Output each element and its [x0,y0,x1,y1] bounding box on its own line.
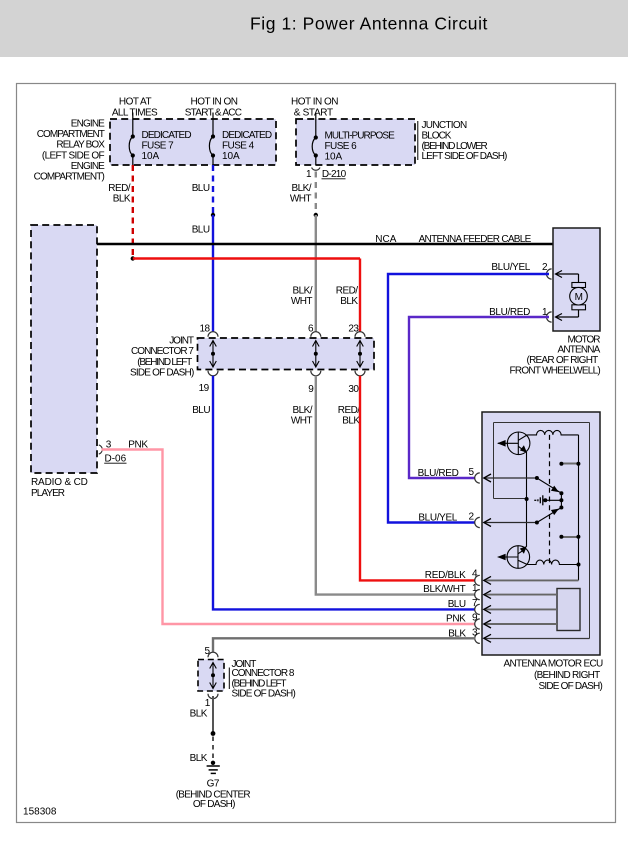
wire BLK dashed to ground [212,737,214,761]
wire BLU dashed from fuse 4 [212,165,214,215]
svg-text:COMPARTMENT: COMPARTMENT [37,129,105,140]
wire PNK from radio to ECU pin 9 [102,450,476,625]
label BLK/WHT above JC7 [291,286,313,308]
wire RED/BLK from JC7 pin 30 to ECU pin 4 [360,376,475,581]
ECU pin 9 lead [484,623,557,625]
JC7 pin 6 arc [311,332,321,337]
svg-text:BLK: BLK [190,708,208,719]
label: joint connector 8 [229,659,295,700]
label: joint connector 7 [130,336,194,379]
svg-text:BLU: BLU [192,225,210,236]
JC7 internal arrow column 1 [210,341,217,368]
svg-text:ALL TIMES: ALL TIMES [112,107,158,118]
ECU inner circuit boundary [494,423,590,639]
svg-text:ANTENNA FEEDER CABLE: ANTENNA FEEDER CABLE [419,234,532,245]
svg-text:FUSE 6: FUSE 6 [325,141,358,152]
svg-text:BLK/WHT: BLK/WHT [423,584,466,595]
svg-text:BLOCK: BLOCK [422,130,452,141]
svg-text:BLU: BLU [448,599,466,610]
JC7 pin numbers [199,323,360,395]
svg-text:& START: & START [294,107,333,118]
label: MULTI-PURPOSE FUSE 6 10A [325,130,396,162]
connector pin 1 of D-210 (arc) [312,168,320,171]
pin 2 arrow + lead [556,271,579,283]
ECU pin 1 lead [484,594,557,596]
relay contact lower [562,536,579,538]
wire BLK/WHT from JC7 pin 9 to ECU pin 1 [316,376,475,595]
svg-text:FUSE 7: FUSE 7 [142,140,175,151]
svg-text:Fig 1: Power Antenna Circuit: Fig 1: Power Antenna Circuit [250,14,488,34]
ECU pin arcs [475,473,480,644]
wire BLU/RED from motor pin 1 to ECU pin 5 [409,317,549,478]
svg-text:SIDE OF DASH): SIDE OF DASH) [232,689,296,700]
svg-text:10A: 10A [142,151,160,162]
svg-text:JUNCTION: JUNCTION [422,120,467,131]
svg-text:158308: 158308 [23,807,57,818]
node: base rail junction dot [525,497,529,501]
svg-text:CONNECTOR 7: CONNECTOR 7 [131,346,194,357]
svg-text:PNK: PNK [446,614,466,625]
svg-text:(LEFT SIDE OF: (LEFT SIDE OF [42,150,105,161]
label: G7 ground [176,779,251,811]
svg-text:BLK: BLK [190,753,208,764]
wire BLK/WHT solid down to joint connector 7 [315,215,317,332]
svg-text:BLK: BLK [342,415,360,426]
motor antenna box [553,228,600,331]
svg-text:(BEHIND LOWER: (BEHIND LOWER [422,141,488,152]
svg-text:MULTI-PURPOSE: MULTI-PURPOSE [325,130,396,141]
svg-text:BLK/: BLK/ [292,183,312,194]
svg-text:RED/BLK: RED/BLK [425,570,466,581]
svg-text:RED/: RED/ [336,286,358,297]
pin 1 arrow + lead [556,310,579,321]
svg-text:COMPARTMENT): COMPARTMENT) [34,172,105,183]
JC8 pin 1 arc [208,694,218,699]
svg-text:BLU: BLU [192,183,210,194]
ECU pin 5 lead + switch wiper up [484,477,537,479]
wire RED/BLK dashed from fuse 7 [132,165,134,258]
fuse F4 stub wire [212,113,214,120]
svg-text:LEFT SIDE OF DASH): LEFT SIDE OF DASH) [422,151,508,162]
svg-text:NCA: NCA [375,234,396,245]
ground G7 [211,761,215,765]
label: engine compartment relay box [34,119,106,183]
ECU pin 7 lead [484,608,557,610]
svg-text:BLU: BLU [192,405,210,416]
ECU pin arrowheads [484,474,491,642]
svg-text:BLK/: BLK/ [293,405,313,416]
JC7 pin 30 arc [355,371,365,376]
svg-text:ANTENNA MOTOR ECU: ANTENNA MOTOR ECU [503,659,602,670]
ECU pin 2 lead + switch wiper down [484,522,537,524]
switch common vertical [560,493,562,507]
svg-text:10A: 10A [325,151,343,162]
JC7 internal arrow column 2 [313,341,320,368]
label: HOT IN ON START & ACC [185,97,242,119]
wire right rail [578,435,580,581]
svg-text:19: 19 [199,383,210,394]
joint connector 8 box [198,660,224,692]
radio pin 3 connector arc [99,445,102,454]
junction dot on BLU [211,213,215,217]
ECU internal module rect [557,589,580,631]
svg-text:RED/: RED/ [108,183,130,194]
wire BLK from ECU pin 3 to joint connector 8 [213,638,475,652]
svg-text:FRONT WHEELWELL): FRONT WHEELWELL) [510,365,601,376]
svg-text:10A: 10A [222,151,240,162]
mechanical link (dashed) [549,435,551,564]
svg-text:DEDICATED: DEDICATED [142,130,192,141]
svg-text:DEDICATED: DEDICATED [222,130,272,141]
svg-text:30: 30 [348,384,359,395]
svg-text:BLU/YEL: BLU/YEL [418,512,457,523]
svg-text:RELAY BOX: RELAY BOX [56,140,105,151]
radio & CD player box [31,225,97,473]
fuse 7 symbol [129,119,133,165]
svg-text:BLU/RED: BLU/RED [418,468,459,479]
svg-text:23: 23 [348,323,359,334]
svg-text:HOT IN ON: HOT IN ON [191,97,238,108]
wire collector rail Q1-Q2 [526,452,528,547]
svg-text:JOINT: JOINT [169,336,194,347]
fuse 6 symbol [312,119,316,165]
junction dot on BLK/WHT [314,213,318,217]
wire BLU from JC7 pin 19 to ECU pin 7 [213,376,475,610]
svg-text:HOT IN ON: HOT IN ON [291,97,338,108]
svg-text:ENGINE: ENGINE [71,119,105,130]
JC7 pin 18 arc [208,332,218,337]
node: inductor L2 to rail [577,563,581,567]
svg-text:BLK/: BLK/ [293,286,313,297]
svg-text:SIDE OF DASH): SIDE OF DASH) [539,681,603,692]
motor antenna pin 1 arc [547,312,552,322]
label: radio & CD player [31,477,88,499]
wire BLK from JC8 to splice [212,696,214,734]
label: HOT IN ON & START [291,97,338,119]
fuse 4 symbol [209,119,213,165]
svg-text:WHT: WHT [290,193,312,204]
label RED/BLK [108,183,131,205]
svg-text:WHT: WHT [291,296,313,307]
svg-text:RED/: RED/ [338,405,360,416]
wire BLU/YEL from motor pin 2 to ECU pin 2 [388,274,549,523]
ECU pin 4 lead [484,579,578,581]
joint connector 7 box [198,338,375,370]
label RED/BLK above JC7 [336,286,359,308]
junction dot RED/BLK [131,256,135,260]
antenna feeder cable (black wire) [97,243,553,246]
svg-text:OF DASH): OF DASH) [193,799,235,810]
relay contact upper [562,463,579,465]
svg-text:M: M [575,292,583,303]
transistor Q1 [498,432,530,455]
svg-text:(BEHIND RIGHT: (BEHIND RIGHT [534,670,600,681]
label: motor antenna [510,334,601,376]
JC7 pin 23 arc [355,332,365,337]
svg-text:FUSE 4: FUSE 4 [222,140,255,151]
inductor L2 [527,560,578,564]
label: DEDICATED FUSE 4 10A [222,130,272,162]
JC8 pin 5 arc [208,652,218,657]
svg-text:PLAYER: PLAYER [31,488,65,499]
svg-text:BLU/YEL: BLU/YEL [491,262,530,273]
inductor L1 [527,430,578,435]
label: antenna motor ECU [503,659,602,693]
svg-text:BLK: BLK [113,193,131,204]
svg-text:D-210: D-210 [322,169,347,180]
svg-text:(BEHIND LEFT: (BEHIND LEFT [137,357,192,368]
JC7 internal arrow column 3 [357,341,364,368]
svg-text:18: 18 [199,323,210,334]
junction block box [296,119,415,165]
svg-text:SIDE OF DASH): SIDE OF DASH) [130,367,194,378]
JC8 internal arrow [210,663,217,689]
svg-text:BLK: BLK [340,296,358,307]
svg-text:ENGINE: ENGINE [71,161,105,172]
motor M symbol [570,283,588,310]
fuse F6 stub wire [315,113,317,119]
svg-text:RADIO & CD: RADIO & CD [31,477,88,488]
svg-text:G7: G7 [207,779,220,790]
label: DEDICATED FUSE 7 10A [142,130,192,162]
label: HOT AT ALL TIMES [112,97,158,119]
transistor Q2 [498,546,530,569]
ground-style symbol (sideways) [534,495,543,505]
relay box (fuse box) [110,119,276,165]
label BLK/WHT below JC7 [291,405,313,427]
splice dot [211,731,216,736]
antenna motor ECU box [482,412,600,655]
ECU pin 3 lead (inner bottom) [484,638,590,640]
svg-text:HOT AT: HOT AT [119,97,152,108]
svg-text:WHT: WHT [291,415,313,426]
JC7 pin 19 arc [208,371,218,376]
wire BLK/WHT dashed from fuse 6 [315,172,317,216]
wire BLU solid down to joint connector 7 [212,215,214,332]
wire to antenna trimmer symbol [545,499,561,501]
fuse F7 stub wire [132,113,134,120]
label BLK/WHT [290,183,312,205]
title bar [0,0,628,57]
wire RED/BLK vertical to JC7 [359,259,361,332]
label: junction block [418,120,507,162]
label RED/BLK below JC7 [338,405,361,427]
JC7 pin 9 arc [311,371,321,376]
wire RED/BLK solid horizontal [133,257,360,259]
motor antenna pin 2 arc [547,269,552,279]
